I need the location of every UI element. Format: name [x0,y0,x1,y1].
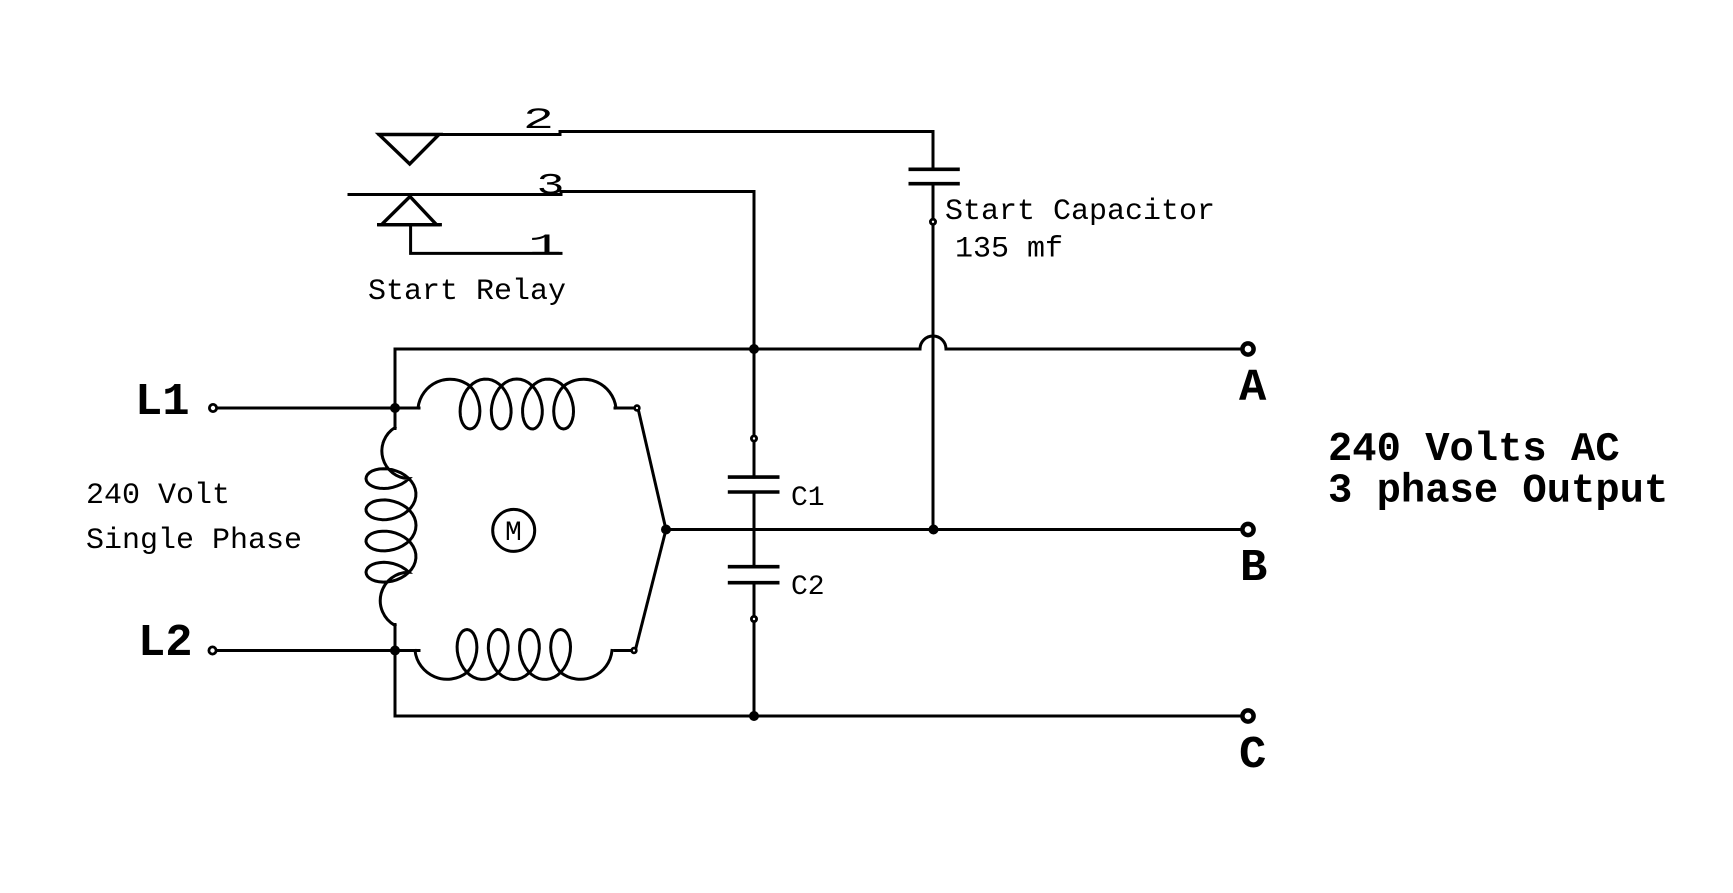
terminal ring A [1242,343,1253,354]
junction dot star point [661,525,671,535]
svg-text:Start Relay: Start Relay [368,275,566,309]
svg-text:240 Volts AC: 240 Volts AC [1328,427,1620,473]
terminal ring C [1242,710,1253,721]
top winding lead from L1 node [395,407,419,410]
svg-text:1: 1 [528,230,562,264]
pin ring bottom winding [632,648,637,653]
svg-text:C: C [1239,729,1266,781]
svg-text:C1: C1 [791,483,825,514]
svg-text:135 mf: 135 mf [955,233,1063,267]
motor winding top (horizontal coil) [418,379,616,429]
capacitor C2 plates [730,565,778,569]
svg-text:B: B [1240,542,1267,594]
start capacitor lower lead down to phase B wire [932,184,935,530]
relay armature base line [379,223,441,226]
junction dot wire3/phase A [749,344,759,354]
junction dot C2/bottom wire [749,711,759,721]
lead from C2 bottom plate to bottom wire [753,583,756,716]
diagonal wire from top winding pin to star point [639,411,666,528]
svg-text:A: A [1239,362,1267,414]
terminal ring L1 [209,404,216,411]
node ring start capacitor [930,219,935,224]
terminal ring L2 [209,647,216,654]
phase A wire right of hop [946,348,1241,351]
svg-text:240 Volt: 240 Volt [86,479,230,513]
svg-text:3 phase Output: 3 phase Output [1328,469,1668,515]
bottom winding lead from L2 node [395,649,419,652]
diagonal wire from bottom winding pin to star point [636,532,666,648]
L1 input wire [217,407,396,410]
lead from C1 bottom plate through B wire to C2 top plate [753,492,756,567]
pin ring top winding [635,406,640,411]
junction dot start-cap/phase B [929,525,939,535]
wire 2 (relay fixed contact to start capacitor) [379,133,560,136]
terminal ring B [1242,524,1253,535]
relay fixed contact triangle on wire 2 [379,135,439,165]
left side wire of motor loop [394,349,397,408]
left vertical lead above winding [394,408,397,429]
left vertical lead below winding [394,625,397,717]
phase B wire from star point to terminal [666,528,1241,531]
junction dot L1 node [390,403,400,413]
svg-text:Start Capacitor: Start Capacitor [945,195,1215,229]
junction dot L2 node [390,646,400,656]
svg-text:Single Phase: Single Phase [86,524,302,558]
node ring C1 top [751,436,756,441]
svg-text:3: 3 [537,170,565,204]
svg-text:2: 2 [523,104,554,138]
wire hop over start-capacitor lead [920,336,946,349]
wire 1 (relay coil lead) [411,225,561,254]
bottom winding lead to pin [615,649,631,652]
start capacitor plates [910,168,958,172]
svg-text:M: M [505,518,522,549]
motor winding bottom (horizontal coil) [415,630,612,680]
motor winding left (vertical coil) [366,428,416,626]
phase A wire left of hop [395,348,920,351]
top winding lead to pin [615,407,634,410]
wire 2 right segment [560,132,933,170]
svg-text:C2: C2 [791,572,825,603]
svg-text:L2: L2 [138,617,193,669]
C1 branch lead from wire-3 junction to C1 top plate [753,349,756,477]
node ring C2 bottom [751,616,756,621]
svg-text:L1: L1 [135,376,190,428]
capacitor C1 plates [730,475,778,479]
L2 input wire [216,649,395,652]
phase C bottom wire [395,651,1241,717]
motor circle M [493,509,535,551]
relay armature triangle on wire 3 [382,197,437,225]
wire 3 right segment down to phase A junction [561,192,754,349]
wire 3 (relay common to C1 top node) [349,193,561,196]
